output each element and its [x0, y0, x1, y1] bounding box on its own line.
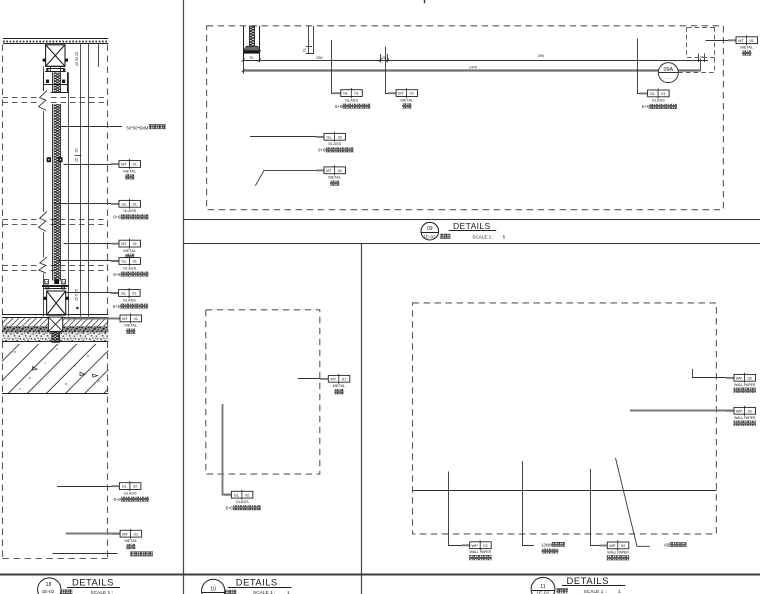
- dashed break line pair 2: [3, 220, 108, 225]
- svg-text:350: 350: [316, 56, 322, 60]
- leader extra note line: [53, 553, 118, 555]
- hanger channel right wall: [259, 26, 261, 62]
- leader MT01 top: [386, 47, 397, 94]
- leader WP02 panel b: [591, 469, 608, 546]
- steel tube 50x50 top (box with X): [46, 45, 65, 66]
- svg-text:- -: - -: [666, 76, 671, 81]
- frame vertical divider bottom middle: [361, 243, 363, 594]
- detail bubble 09A: [658, 63, 678, 83]
- label MT01 mid: [316, 165, 346, 185]
- concrete slab hatch: [2, 344, 108, 394]
- dimension numbers row 1: [249, 54, 704, 60]
- glass mid clamp right: [58, 157, 62, 162]
- break zigzag 1: [37, 91, 51, 111]
- frame bottom title line: [0, 574, 760, 576]
- leader GL01 top: [332, 40, 341, 94]
- head channel shelf: [43, 84, 67, 86]
- leader GL02 mid: [250, 136, 324, 138]
- label MT01 floor: [112, 313, 142, 333]
- leader GL01 b: [58, 260, 119, 262]
- label GL01 bubble: [640, 88, 678, 109]
- label GL01 b: [111, 256, 149, 277]
- title circle 18: [38, 576, 120, 594]
- plywood note text: [541, 542, 565, 553]
- glass mid clamp left: [47, 157, 51, 162]
- leader GL01 bubble: [638, 39, 648, 94]
- frame horizontal title band top line: [183, 219, 760, 221]
- dimension line row 1: [242, 54, 708, 63]
- leader plywood note: [523, 461, 535, 546]
- label MT01 mid-panel: [320, 374, 350, 394]
- svg-text:25: 25: [75, 149, 79, 153]
- label GL01 top: [333, 88, 371, 109]
- break zigzag 2: [37, 212, 51, 232]
- label MT01 a: [111, 159, 141, 179]
- head channel base: [42, 92, 69, 94]
- head clamp left: [46, 80, 49, 83]
- leader MT01 mid: [255, 170, 324, 185]
- svg-text:25 5 25: 25 5 25: [75, 289, 79, 301]
- svg-text:DETAILS: DETAILS: [453, 221, 491, 231]
- leader MT01 floor: [66, 318, 120, 320]
- svg-text:390: 390: [538, 54, 544, 58]
- leader GL01 c: [66, 292, 119, 294]
- label WP02 right b: [726, 406, 756, 426]
- dashed panel border 09: [207, 26, 724, 210]
- svg-text:DETAILS: DETAILS: [72, 576, 114, 587]
- chair rail line: [413, 490, 717, 492]
- title circle 10: [202, 577, 292, 594]
- svg-text:1E-02: 1E-02: [42, 589, 55, 594]
- svg-text:12MM: 12MM: [541, 542, 553, 547]
- break zigzag 3: [37, 257, 51, 273]
- label MT01 top: [388, 88, 418, 108]
- title circle 09: [421, 222, 439, 240]
- hanger channel left wall: [243, 26, 245, 62]
- floor slab top lines: [2, 314, 108, 316]
- glass line end ticks: [242, 69, 245, 72]
- bottom cap plates: [42, 286, 69, 289]
- extension elbow line: [306, 26, 314, 54]
- extension line x81: [80, 44, 82, 317]
- svg-text:DETAILS: DETAILS: [236, 577, 278, 588]
- leader MT01 a: [64, 164, 119, 166]
- top cap assembly: [45, 67, 66, 72]
- svg-text:SCALE 1 :: SCALE 1 :: [253, 590, 275, 594]
- extension line x99 short top: [98, 44, 100, 67]
- leader glue note diagonal: [616, 458, 651, 546]
- dashed panel border 11: [413, 303, 717, 534]
- glass panel main segment: [53, 104, 61, 281]
- label GL02 mid-panel: [223, 490, 261, 511]
- svg-text:1470: 1470: [469, 66, 477, 70]
- top tube side cleat left: [43, 59, 46, 62]
- dashed boundary bottom edge: [3, 558, 108, 560]
- bottom tube side cleat right: [66, 297, 69, 300]
- leader WP02 right a: [693, 369, 735, 378]
- extension line x43: [43, 67, 45, 317]
- floor screed bottom line: [2, 341, 108, 343]
- stray tick top center: [424, 0, 426, 3]
- top cap dark block: [63, 68, 65, 71]
- dashed break line pair 3: [3, 266, 108, 271]
- frame horizontal title band bottom line: [183, 243, 760, 245]
- floor tile hatch band: [2, 317, 108, 326]
- floor mortar dark speckle band: [2, 326, 108, 332]
- label GL01 a: [111, 199, 149, 220]
- leader WP02 panel a: [449, 472, 470, 546]
- svg-text:09A: 09A: [664, 67, 674, 73]
- svg-text:AB: AB: [664, 543, 670, 548]
- leader steel tube note: [58, 124, 166, 130]
- rod flare foot: [244, 46, 261, 50]
- svg-text:11: 11: [540, 584, 545, 590]
- floor screed light speckle band: [2, 333, 108, 342]
- ceiling slab band: [3, 39, 108, 44]
- svg-text:DETAILS: DETAILS: [567, 575, 610, 586]
- label MT01 right: [728, 35, 758, 55]
- dashed boundary left edge: [2, 45, 4, 559]
- threaded rod: [250, 26, 255, 47]
- leader MT01 mid-panel: [298, 378, 329, 380]
- extension line x88: [88, 44, 90, 317]
- leader MT01 right: [706, 40, 737, 42]
- label WP02 right a: [726, 373, 756, 393]
- svg-text:1: 1: [287, 590, 290, 594]
- concrete slab bottom line: [2, 393, 108, 395]
- leader GL02 lower: [57, 486, 119, 488]
- svg-text:70: 70: [249, 56, 253, 60]
- svg-text:SCALE 1 :: SCALE 1 :: [584, 589, 606, 594]
- svg-text:1E-02: 1E-02: [423, 235, 436, 240]
- steel tube bottom (box with X): [47, 291, 66, 315]
- svg-text:50*50*5MM: 50*50*5MM: [127, 125, 149, 130]
- svg-text:25: 25: [75, 158, 79, 162]
- leader MT01 lower: [66, 533, 120, 535]
- label GL02 lower: [111, 481, 148, 502]
- leader GL02 mid-panel: [223, 404, 232, 495]
- head channel left wall: [43, 72, 45, 92]
- head clamp right: [62, 80, 65, 83]
- svg-text:09: 09: [427, 226, 433, 232]
- svg-text:75: 75: [303, 49, 307, 53]
- label MT01 lower: [112, 529, 142, 549]
- dashed boundary right edge: [107, 45, 109, 559]
- title circle 11: [531, 575, 625, 594]
- glue note text: [664, 542, 687, 547]
- svg-text:1E-02: 1E-02: [536, 591, 549, 594]
- glass panel upper segment: [53, 72, 61, 92]
- vertical dim 75: [303, 26, 312, 54]
- svg-text:18: 18: [46, 582, 52, 588]
- svg-text:25 50 25: 25 50 25: [75, 52, 79, 66]
- embedded base box: [48, 317, 62, 331]
- svg-text:19: 19: [45, 280, 49, 284]
- svg-text:1: 1: [618, 589, 621, 594]
- label GL02 mid: [316, 132, 354, 153]
- svg-text:10: 10: [210, 586, 216, 592]
- label GL01 c: [111, 288, 149, 309]
- bottom fitting clamp row: [45, 279, 66, 284]
- frame vertical divider left: [183, 0, 185, 594]
- dashed panel border 10: [206, 310, 320, 474]
- label WP02 panel a: [462, 540, 492, 560]
- label WP02 panel b: [599, 540, 629, 560]
- extra note text: [130, 551, 153, 556]
- svg-text:5: 5: [503, 234, 506, 239]
- bottom tube side cleat left: [44, 297, 47, 300]
- embedded anchor stem: [52, 331, 60, 342]
- label MT01 b: [111, 239, 141, 259]
- leader MT01 b: [64, 243, 119, 245]
- concrete triangle marks: [33, 367, 38, 371]
- rod base plate: [243, 51, 260, 54]
- dashed break line pair 1: [3, 98, 108, 103]
- svg-text:19: 19: [62, 280, 66, 284]
- head channel right wall: [67, 72, 69, 92]
- svg-text:25: 25: [700, 55, 704, 59]
- concrete speckle dots: [14, 348, 99, 389]
- dashed equipment box: [678, 27, 715, 72]
- extension line x69: [68, 72, 70, 316]
- leader WP02 right b: [630, 410, 734, 412]
- svg-text:SCALE 1 :: SCALE 1 :: [91, 590, 113, 594]
- svg-text:SCALE 1 :: SCALE 1 :: [472, 234, 493, 239]
- top tube side cleat right: [65, 59, 68, 62]
- glass top edge line: [243, 69, 701, 71]
- leader GL01 a: [54, 203, 119, 205]
